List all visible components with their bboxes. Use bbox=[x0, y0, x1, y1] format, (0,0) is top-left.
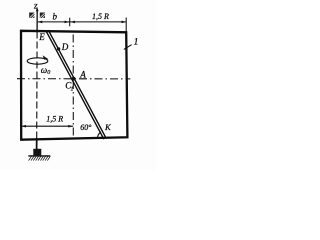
point D dot bbox=[57, 47, 60, 50]
svg-text:0: 0 bbox=[47, 70, 50, 76]
rod E-K (double line) bbox=[46, 31, 104, 139]
dimension 1.5R (bottom) bbox=[21, 125, 73, 127]
svg-text:1: 1 bbox=[134, 37, 139, 47]
point A dot bbox=[72, 77, 76, 81]
ground hatching bbox=[29, 156, 51, 160]
extension line (right edge up) bbox=[125, 18, 127, 33]
axis z solid segment below plate bbox=[36, 140, 38, 150]
dimension 1.5R (top) bbox=[70, 21, 127, 23]
plate 1 (square frame) bbox=[21, 31, 127, 140]
axis z arrowhead bbox=[36, 7, 39, 11]
dimension b (axis to tick) bbox=[38, 21, 70, 23]
vertical center line of plate bbox=[72, 35, 74, 139]
svg-text:1,5 R: 1,5 R bbox=[92, 12, 109, 21]
svg-text:K: K bbox=[104, 122, 112, 132]
svg-text:z: z bbox=[33, 0, 38, 10]
support block (bottom) bbox=[33, 149, 41, 156]
tick between b and 1.5R bbox=[69, 18, 71, 27]
svg-text:b: b bbox=[53, 12, 58, 22]
svg-text:A: A bbox=[79, 70, 86, 80]
svg-text:D: D bbox=[61, 42, 69, 52]
axis z dashed segment inside plate bbox=[36, 32, 38, 140]
angle arc 60deg at K bbox=[97, 132, 101, 138]
ground line bbox=[28, 155, 50, 157]
svg-text:1: 1 bbox=[71, 86, 74, 92]
svg-text:ω: ω bbox=[41, 65, 47, 75]
bearing (top) right block bbox=[40, 13, 45, 19]
svg-text:E: E bbox=[38, 32, 45, 42]
axis z solid segment above plate bbox=[36, 9, 38, 32]
bearing (top) left block bbox=[29, 13, 35, 19]
leader line to label 1 bbox=[124, 45, 132, 50]
svg-text:60°: 60° bbox=[80, 123, 92, 132]
rotation arrow ellipse omega0 bbox=[27, 58, 48, 64]
horizontal center line of plate bbox=[17, 78, 130, 80]
svg-text:1,5 R: 1,5 R bbox=[46, 115, 63, 124]
